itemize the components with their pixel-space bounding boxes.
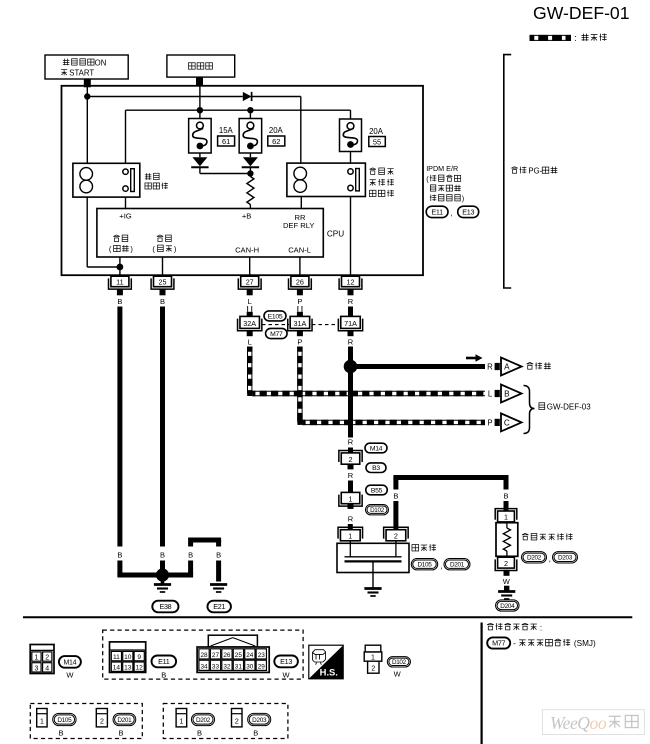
dashed group box: D105/D201 xyxy=(30,704,142,739)
node: ignition branch junction xyxy=(84,93,90,99)
oval: M14 (bottom) xyxy=(59,656,81,668)
wire: ground(power) pin to 11 xyxy=(119,257,121,276)
svg-text:,: , xyxy=(440,562,442,571)
svg-text:20A: 20A xyxy=(369,127,384,136)
svg-text:GW-DEF-01: GW-DEF-01 xyxy=(533,3,629,23)
svg-text:R: R xyxy=(348,515,354,524)
svg-text:11: 11 xyxy=(116,277,123,286)
tab below 71A xyxy=(348,331,354,336)
svg-text:D201: D201 xyxy=(117,717,132,724)
svg-text:WeeQoo: WeeQoo xyxy=(550,713,607,733)
svg-text:2: 2 xyxy=(45,655,49,662)
connector pin face 1 (D105) xyxy=(37,709,47,727)
oval: E13 (bottom) xyxy=(274,656,298,668)
resistor to +B xyxy=(247,174,254,209)
oval: D202 (bottom) xyxy=(191,713,214,725)
oval: B55 xyxy=(366,485,388,495)
svg-text:10: 10 xyxy=(124,654,132,661)
svg-text:R: R xyxy=(348,438,354,447)
CPU box xyxy=(97,209,323,258)
svg-text:32: 32 xyxy=(223,663,231,670)
svg-text:ON: ON xyxy=(95,58,107,67)
svg-text:A: A xyxy=(504,363,510,372)
dashed group box: D202/D203 xyxy=(163,704,288,739)
oval: D202 xyxy=(522,552,547,563)
connector face M14 (2x2 grid) xyxy=(30,645,54,674)
rear defogger relay 后车窗除雾器继电器 xyxy=(287,163,366,196)
svg-text::: : xyxy=(540,623,542,632)
svg-text:D105: D105 xyxy=(57,717,72,724)
label: - 超多路连接器(SMJ) xyxy=(513,638,596,648)
svg-text:1: 1 xyxy=(179,718,183,725)
svg-text:D201: D201 xyxy=(450,562,465,569)
wire: bridge to E21 xyxy=(188,540,221,582)
arrow: next page direction xyxy=(466,354,483,362)
label: 下一页 xyxy=(527,362,551,369)
svg-text:27: 27 xyxy=(246,277,254,286)
svg-text:W: W xyxy=(283,671,291,680)
svg-text:2: 2 xyxy=(371,666,375,673)
oval: D105 xyxy=(411,559,438,570)
svg-text:B: B xyxy=(503,491,508,500)
wire: ignition feed vertical xyxy=(86,86,88,163)
svg-text:C: C xyxy=(504,418,510,427)
svg-text:E13: E13 xyxy=(462,207,474,216)
wire: battery vertical xyxy=(199,86,201,111)
wire: diode to defogger relay coil feed xyxy=(252,96,301,98)
svg-text:55: 55 xyxy=(373,137,381,146)
svg-text::: : xyxy=(574,33,577,43)
wire: capacitor pin 2 stub xyxy=(395,541,397,544)
tab: ignition switch output xyxy=(84,79,91,87)
svg-text:2: 2 xyxy=(349,455,353,464)
capacitor pin 1 xyxy=(338,527,363,541)
svg-text:32A: 32A xyxy=(243,319,256,328)
ignition relay 点火继电器 xyxy=(73,163,140,197)
svg-text:26: 26 xyxy=(296,277,304,286)
svg-text:D105: D105 xyxy=(417,562,432,569)
oval: D201 (bottom) xyxy=(113,713,136,725)
oval: M77 (note) xyxy=(487,637,510,648)
svg-text:B: B xyxy=(117,297,122,306)
svg-text:B: B xyxy=(160,551,165,560)
pin 26 xyxy=(289,276,312,289)
svg-text:2: 2 xyxy=(100,718,104,725)
wire: defogger relay contact to pin 12 xyxy=(350,197,352,277)
outer box: IPDM E/R xyxy=(62,86,424,275)
tab below 32A xyxy=(247,331,253,336)
wire: fuse 61 feed xyxy=(199,110,201,118)
terminal C xyxy=(495,413,522,431)
svg-text:1: 1 xyxy=(348,532,352,541)
svg-text:9: 9 xyxy=(137,654,141,661)
data wire: row C horizontal xyxy=(302,419,485,421)
label: IPDM E/R block xyxy=(426,164,464,203)
svg-text:B: B xyxy=(197,728,202,737)
legend label : 数据线 xyxy=(574,33,606,43)
wire: capacitor pin 1 stub xyxy=(349,541,351,544)
svg-text:M14: M14 xyxy=(64,659,77,666)
right panel divider xyxy=(481,623,483,744)
rear window defogger 后车窗除雾器 xyxy=(495,509,518,571)
wire: relay coil to RR DEF RLY pin xyxy=(300,197,302,209)
svg-text:P: P xyxy=(297,297,302,306)
oval: E11 (IPDM) xyxy=(426,206,448,217)
svg-text:B: B xyxy=(216,551,221,560)
svg-text:R: R xyxy=(487,363,493,372)
dashed group box: E11/E13 xyxy=(103,630,303,679)
capacitor 电容器 xyxy=(337,543,409,572)
svg-text:26: 26 xyxy=(223,652,231,659)
tab below pin 1 xyxy=(348,504,354,509)
svg-text:B55: B55 xyxy=(371,487,383,494)
svg-text:3: 3 xyxy=(34,666,38,673)
label: fuse number 62 box xyxy=(268,136,285,146)
oval: E13 (IPDM) xyxy=(458,206,479,217)
tab below defogger pin 2 xyxy=(504,570,510,576)
svg-text:B: B xyxy=(58,728,63,737)
svg-text:L: L xyxy=(248,337,252,346)
bracket: see PG-power xyxy=(504,55,511,288)
svg-text:34: 34 xyxy=(200,663,208,670)
connector 31A (SMJ) xyxy=(288,316,312,330)
svg-text:24: 24 xyxy=(246,652,254,659)
svg-text:23: 23 xyxy=(258,652,266,659)
svg-text:W: W xyxy=(66,671,74,680)
oval: M14 xyxy=(365,443,387,453)
svg-text:2: 2 xyxy=(394,532,398,541)
svg-text:D102: D102 xyxy=(392,659,407,666)
svg-text:W: W xyxy=(394,669,402,678)
svg-text:B: B xyxy=(504,390,510,399)
data wire: L pin 27 to 32A xyxy=(248,306,252,312)
svg-text:D102: D102 xyxy=(370,507,385,514)
wire: ground(signal) pin to 25 xyxy=(162,257,164,276)
svg-text:B: B xyxy=(188,551,193,560)
label: 电容器 xyxy=(412,544,436,551)
oval: D105 (bottom) xyxy=(53,713,76,725)
wire: ignition relay coil return xyxy=(87,197,120,267)
corner: P wire xyxy=(297,420,302,425)
label: 后车窗除雾器继电器 xyxy=(369,168,393,197)
data wire: L down to row B xyxy=(247,347,249,394)
svg-text:31A: 31A xyxy=(294,319,307,328)
wire: capacitor pin2 to defogger pin1 top run xyxy=(393,478,508,490)
corner: L wire xyxy=(247,391,252,396)
svg-text:1: 1 xyxy=(371,654,375,661)
svg-text:E105: E105 xyxy=(268,313,283,320)
svg-text:R: R xyxy=(348,297,354,306)
connector pin face 2 (D201) xyxy=(96,709,107,727)
wire: ignition relay contact to +IG xyxy=(125,197,127,208)
svg-text:DEF RLY: DEF RLY xyxy=(283,221,315,230)
svg-text:CAN-L: CAN-L xyxy=(288,246,311,255)
svg-text:D202: D202 xyxy=(196,717,211,724)
tab below pin 2 xyxy=(348,464,354,469)
svg-text:B: B xyxy=(117,551,122,560)
wire: diode outputs join xyxy=(200,173,251,175)
label: fuse number 61 box xyxy=(218,136,235,146)
terminal A to next page xyxy=(495,358,522,376)
pin 25 xyxy=(151,276,174,289)
wire: R to B55 pin 1 xyxy=(348,481,353,493)
capacitor pin 2 xyxy=(384,527,409,541)
wire: fuse 55 to defogger relay contact xyxy=(350,152,352,165)
svg-text:+B: +B xyxy=(242,212,252,221)
H.S. badge xyxy=(309,645,343,679)
svg-text:D202: D202 xyxy=(527,555,542,562)
svg-text:20A: 20A xyxy=(269,126,284,135)
connector pin face 1 (D202) xyxy=(176,709,187,727)
tab: defogger ground xyxy=(504,586,509,591)
oval: D203 xyxy=(553,552,578,563)
svg-text:,: , xyxy=(549,555,551,564)
svg-text:E13: E13 xyxy=(280,657,292,666)
svg-text:-: - xyxy=(513,638,516,648)
diode D3 below fuse 62 xyxy=(242,153,259,174)
wire: B from pin 25 down to ground bus xyxy=(160,307,165,547)
oval: D203 (bottom) xyxy=(248,713,271,725)
svg-text:(SMJ): (SMJ) xyxy=(574,639,596,648)
wire: fuse 62 feed xyxy=(249,110,251,118)
svg-text:25: 25 xyxy=(159,277,167,286)
svg-text:2: 2 xyxy=(235,718,239,725)
svg-text:D203: D203 xyxy=(252,717,267,724)
svg-text:,: , xyxy=(450,209,452,218)
tab: pin 12 xyxy=(348,289,354,295)
wire: ignition relay contact feed xyxy=(125,110,127,164)
svg-text:B: B xyxy=(253,728,258,737)
wire: R to M14 pin 2 xyxy=(348,448,353,453)
label: 参见下列内容: xyxy=(487,623,542,632)
connector face E11 (2x3 grid) xyxy=(110,642,146,673)
wire: B into defogger pin 1 xyxy=(504,501,509,511)
tab: pin 27 xyxy=(247,289,253,295)
label: RR DEF RLY xyxy=(283,213,315,230)
fuse 20A 62 xyxy=(239,119,262,154)
svg-text:L: L xyxy=(488,390,493,399)
svg-text:PG-: PG- xyxy=(528,166,542,175)
svg-text:D204: D204 xyxy=(500,603,515,610)
svg-text:62: 62 xyxy=(272,137,280,146)
oval: E11 (bottom) xyxy=(152,656,177,668)
connector 71A (SMJ) xyxy=(338,316,362,330)
pin 27 xyxy=(238,276,261,289)
data wire: P pin 26 to 31A xyxy=(298,306,302,312)
oval: E21 xyxy=(207,601,231,613)
svg-text:P: P xyxy=(487,418,492,427)
svg-text:W: W xyxy=(503,577,511,586)
svg-text:1: 1 xyxy=(34,655,38,662)
svg-text:P: P xyxy=(297,337,302,346)
label: 接地(电源) xyxy=(109,235,133,254)
tab: pin 11 xyxy=(117,289,123,295)
node: diodes junction xyxy=(247,170,253,176)
svg-text:25: 25 xyxy=(235,652,243,659)
svg-text:GW-DEF-03: GW-DEF-03 xyxy=(547,403,591,412)
svg-text:D203: D203 xyxy=(558,555,573,562)
node: ground bus junction xyxy=(156,568,169,581)
wire: line to diode xyxy=(87,96,243,98)
svg-text:28: 28 xyxy=(200,652,208,659)
ground: E21 xyxy=(210,583,227,586)
svg-text:29: 29 xyxy=(258,663,266,670)
svg-text:27: 27 xyxy=(212,652,220,659)
svg-text:H.S.: H.S. xyxy=(320,666,338,677)
wire: R pin 12 to 71A xyxy=(348,307,353,317)
tab below 31A xyxy=(297,331,303,336)
svg-text:B: B xyxy=(160,297,165,306)
brace: to GW-DEF-03 xyxy=(524,386,535,434)
fuse 15A 61 xyxy=(189,119,212,154)
svg-text:1: 1 xyxy=(349,494,353,503)
label: 点火继电器 xyxy=(145,173,168,189)
svg-text:M77: M77 xyxy=(270,331,283,338)
pin 12 xyxy=(339,276,362,289)
legend: data line symbol xyxy=(530,35,572,41)
svg-text:12: 12 xyxy=(347,277,355,286)
svg-text:L: L xyxy=(248,297,252,306)
label: fuse number 55 box xyxy=(369,137,386,147)
wire: fuse 55 feed corner xyxy=(350,110,352,119)
fuse 20A 55 xyxy=(340,119,362,152)
connector face E13 (2x6 grid with top tab) xyxy=(197,635,269,672)
wire: B from pin 11 down to ground bus xyxy=(117,307,122,547)
svg-text:B3: B3 xyxy=(372,465,380,472)
svg-text:33: 33 xyxy=(212,663,220,670)
svg-text:CPU: CPU xyxy=(327,230,344,239)
label: 至GW-DEF-03 xyxy=(539,403,591,412)
dashed link 32A-31A xyxy=(262,324,289,326)
data wire: row B horizontal xyxy=(252,390,485,392)
svg-text:30: 30 xyxy=(246,663,254,670)
diode D2 below fuse 61 xyxy=(191,153,208,174)
box: ignition switch 点火开关ON 或START xyxy=(45,55,128,79)
wire: R down from 71A xyxy=(348,347,353,438)
svg-text:13: 13 xyxy=(124,665,132,672)
wire: defogger relay coil feed vertical xyxy=(300,97,302,164)
tab: battery output xyxy=(196,77,203,86)
wire: CAN-L pin to 26 xyxy=(299,257,301,276)
oval: D102 xyxy=(366,505,389,515)
wire: CAN-H pin to 27 xyxy=(249,257,251,276)
svg-text:+IG: +IG xyxy=(119,212,132,221)
oval: E105 xyxy=(264,311,286,321)
terminal B xyxy=(495,385,522,403)
svg-text:B: B xyxy=(161,671,166,680)
svg-text:E38: E38 xyxy=(159,602,171,611)
node: battery to fuse 61 xyxy=(197,107,203,113)
svg-text:CAN-H: CAN-H xyxy=(235,246,259,255)
svg-text:61: 61 xyxy=(222,137,230,146)
svg-text:M77: M77 xyxy=(492,639,505,648)
ground: E38 xyxy=(154,578,171,592)
svg-text:E11: E11 xyxy=(431,207,443,216)
svg-text:71A: 71A xyxy=(344,319,357,328)
separator line xyxy=(23,616,632,618)
wire: ground bus xyxy=(117,561,193,576)
svg-text:E11: E11 xyxy=(158,657,170,666)
svg-text:4: 4 xyxy=(45,666,49,673)
svg-text:): ) xyxy=(462,194,464,203)
svg-text:15A: 15A xyxy=(219,126,234,135)
svg-text:M14: M14 xyxy=(370,445,383,452)
tab above 31A xyxy=(297,312,303,317)
oval: D204 xyxy=(496,600,520,611)
dashed link 31A-71A xyxy=(312,324,339,326)
svg-text:E21: E21 xyxy=(213,602,225,611)
connector 32A (SMJ) xyxy=(238,316,262,330)
wire: R to capacitor pin 1 xyxy=(348,524,353,530)
oval: E38 xyxy=(152,601,178,613)
box: battery 蓄电池 xyxy=(167,55,235,77)
svg-text:B: B xyxy=(393,491,398,500)
label: 参见PG-电源 xyxy=(511,166,557,175)
svg-text:12: 12 xyxy=(136,665,144,672)
oval: D102 (bottom) xyxy=(387,657,410,667)
tab: pin 25 xyxy=(160,289,166,295)
wire: row A horizontal xyxy=(351,364,486,369)
tab: pin 26 xyxy=(297,289,303,295)
pin 11 xyxy=(109,276,132,289)
diode D1 on ignition line xyxy=(243,92,252,101)
svg-text:31: 31 xyxy=(235,663,243,670)
wire: battery bus line C xyxy=(126,109,351,111)
node: coil return joins ground wire xyxy=(117,264,124,271)
oval: D201 xyxy=(444,559,470,570)
svg-text:B: B xyxy=(118,728,123,737)
label: 接地(信号) xyxy=(152,235,176,254)
svg-text:START: START xyxy=(69,69,94,78)
oval: M77 xyxy=(266,328,288,338)
node: R branch junction xyxy=(344,360,358,374)
svg-text:11: 11 xyxy=(113,654,120,661)
connector face D102 (stacked 1/2) xyxy=(364,645,382,673)
svg-text:2: 2 xyxy=(504,559,508,568)
node: battery bus to fuse 62 xyxy=(247,107,253,113)
connector pin 1 (B55/D102) xyxy=(339,492,362,506)
svg-text:1: 1 xyxy=(504,513,508,522)
wire: B into capacitor pin 2 xyxy=(393,501,398,530)
tab above 32A xyxy=(247,312,253,317)
connector pin 2 (M14/B3) xyxy=(339,451,362,465)
ground: capacitor xyxy=(364,573,381,597)
data wire: P down to row C xyxy=(297,347,299,423)
label: 后车窗除雾器 xyxy=(522,533,572,540)
svg-text:14: 14 xyxy=(113,665,121,672)
ground: defogger D204 xyxy=(498,590,515,593)
svg-text:R: R xyxy=(348,471,354,480)
svg-text:1: 1 xyxy=(40,718,44,725)
svg-text:IPDM E/R: IPDM E/R xyxy=(426,164,458,173)
oval: B3 xyxy=(366,463,386,473)
svg-text:R: R xyxy=(348,337,354,346)
watermark WeeQoo xyxy=(542,710,644,735)
connector pin face 2 (D203) xyxy=(232,709,243,727)
